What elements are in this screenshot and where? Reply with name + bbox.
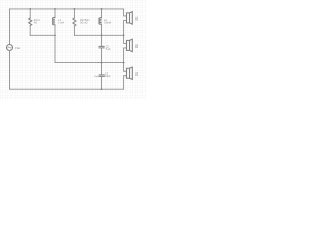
svg-text:8Ω: 8Ω: [135, 46, 138, 49]
speaker SP3 leads: [124, 63, 127, 72]
junction R1 top rail: [29, 8, 31, 10]
junction SP2 return lower rail: [123, 62, 125, 64]
resistor R2: [73, 9, 75, 18]
svg-text:5 µF: 5 µF: [106, 48, 111, 51]
capacitor C3: [99, 75, 104, 77]
speaker SP1 leads: [124, 9, 127, 16]
resistor R1: [29, 9, 31, 18]
junction L1 mid rail: [54, 34, 56, 36]
svg-text:4Ω: 4Ω: [34, 22, 37, 25]
svg-text:4Ω: 4Ω: [135, 74, 138, 77]
junction R2 top rail: [74, 8, 76, 10]
svg-text:10µF: 10µF: [94, 76, 100, 78]
junction C2 lower rail: [101, 62, 103, 64]
capacitor C2: [99, 46, 104, 48]
svg-text:10µF: 10µF: [105, 75, 111, 78]
wire top rail: [10, 8, 124, 10]
wire rail mid-low: [55, 62, 124, 64]
junction SP1 return mid rail: [123, 34, 125, 36]
inductor L2: [101, 9, 103, 18]
speaker SP2: [127, 40, 130, 50]
svg-text:0.5mH: 0.5mH: [104, 22, 111, 25]
speaker SP1: [127, 13, 130, 23]
svg-text:1Vac: 1Vac: [15, 47, 21, 50]
speaker SP3: [127, 68, 130, 78]
wire R1 bottom to L1: [30, 34, 55, 36]
inductor L1: [54, 9, 56, 18]
speaker SP2 leads: [124, 35, 127, 43]
wire left vertical (source top lead): [9, 9, 11, 45]
svg-text:8Ω: 8Ω: [135, 19, 138, 22]
junction C3 bottom rail: [101, 88, 103, 90]
svg-text:1 mH: 1 mH: [58, 22, 64, 25]
voltage source V1: [7, 45, 13, 51]
svg-text:50 mΩ: 50 mΩ: [80, 22, 87, 25]
junction L1 top rail: [54, 8, 56, 10]
wire bottom rail: [10, 88, 124, 90]
junction L2 mid rail: [101, 34, 103, 36]
junction L2 top rail: [101, 8, 103, 10]
wire left vertical (source bottom lead): [9, 51, 11, 90]
wire rail mid-high: [74, 34, 123, 36]
